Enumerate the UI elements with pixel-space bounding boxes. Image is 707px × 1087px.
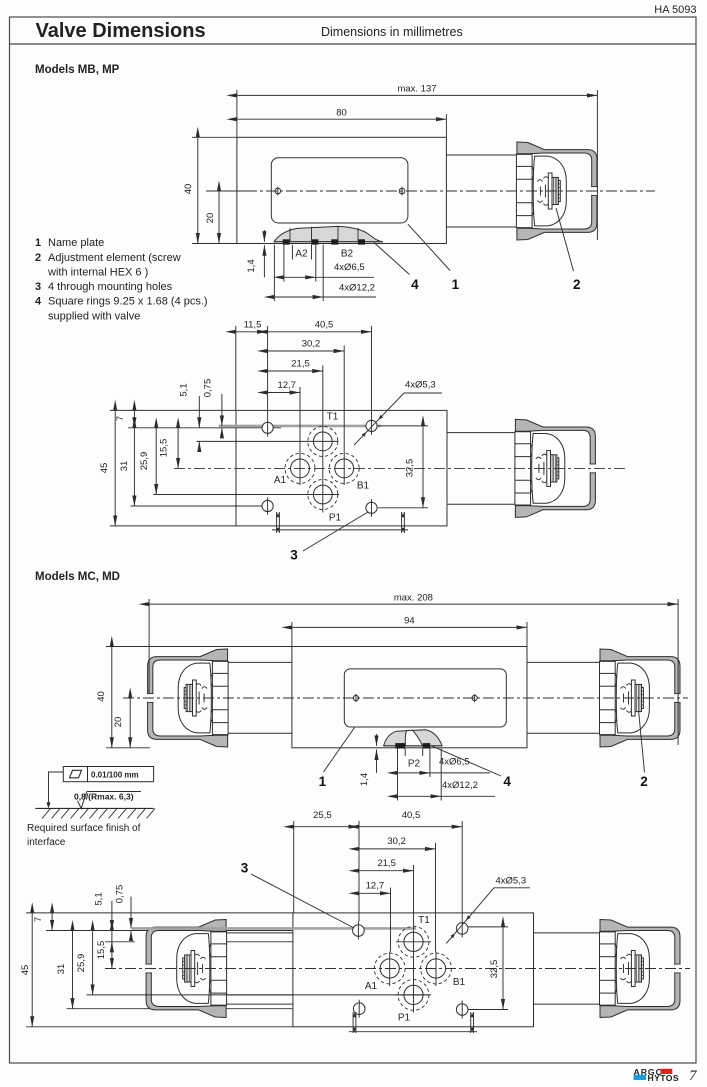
svg-text:40: 40 xyxy=(96,691,107,702)
left tube xyxy=(226,932,293,934)
flatness tolerance frame xyxy=(63,767,153,782)
svg-text:32,5: 32,5 xyxy=(405,459,416,478)
svg-text:1: 1 xyxy=(452,277,460,292)
centerline xyxy=(123,697,688,699)
svg-text:Square rings 9.25 x 1.68 (4 pc: Square rings 9.25 x 1.68 (4 pcs.) xyxy=(48,296,208,308)
svg-text:P1: P1 xyxy=(398,1013,411,1024)
svg-text:3: 3 xyxy=(35,281,41,293)
svg-text:4: 4 xyxy=(503,774,511,789)
leader 2 xyxy=(556,208,574,271)
centerline xyxy=(174,467,628,469)
svg-text:T1: T1 xyxy=(418,915,430,926)
centerline xyxy=(105,968,690,970)
plate bottom ext xyxy=(26,1026,293,1028)
leader 4 xyxy=(431,746,501,776)
svg-text:1,4: 1,4 xyxy=(246,259,257,272)
T1 tube line xyxy=(226,941,293,943)
port P1 xyxy=(313,485,332,504)
ground surface line xyxy=(35,807,153,809)
pin left xyxy=(276,512,278,533)
top dim ext lines xyxy=(235,326,237,410)
right tube xyxy=(534,932,601,934)
dim 30.2 xyxy=(359,848,436,850)
extension lines below hump xyxy=(273,245,275,301)
port B1 xyxy=(335,459,354,478)
square rings hump xyxy=(274,226,383,241)
dim 12.7 xyxy=(268,392,300,394)
dim 11.5 xyxy=(236,331,268,333)
mounting hole TR xyxy=(366,420,377,431)
name plate screw right xyxy=(472,695,477,700)
dim 40 xyxy=(106,646,292,648)
dim 32.5 xyxy=(378,425,428,427)
svg-text:15,5: 15,5 xyxy=(96,941,107,960)
dim 30.2 xyxy=(268,350,345,352)
svg-text:5,1: 5,1 xyxy=(179,383,190,396)
dim max 208 xyxy=(148,599,150,694)
pin right xyxy=(401,512,403,533)
square rings hump xyxy=(384,730,443,746)
svg-text:1: 1 xyxy=(35,237,41,249)
svg-text:Valve Dimensions: Valve Dimensions xyxy=(36,20,206,42)
svg-text:12,7: 12,7 xyxy=(366,881,385,892)
svg-text:25,9: 25,9 xyxy=(76,954,87,973)
pin right xyxy=(470,1012,472,1033)
BL hole line xyxy=(131,505,269,507)
svg-text:21,5: 21,5 xyxy=(291,359,310,370)
mounting hole BR xyxy=(366,502,377,513)
solenoid neck xyxy=(446,154,517,156)
leader 1 xyxy=(324,728,355,773)
dim 40.5 xyxy=(268,331,372,333)
svg-text:4 through mounting holes: 4 through mounting holes xyxy=(48,281,173,293)
svg-text:45: 45 xyxy=(20,965,31,976)
svg-text:with internal HEX 6 ): with internal HEX 6 ) xyxy=(47,267,148,279)
svg-text:30,2: 30,2 xyxy=(387,836,406,847)
name plate xyxy=(271,158,408,223)
svg-text:4xØ12,2: 4xØ12,2 xyxy=(442,780,478,791)
subplate line xyxy=(272,529,408,531)
svg-text:25,9: 25,9 xyxy=(139,452,150,471)
dim 94 xyxy=(291,622,293,647)
svg-text:40: 40 xyxy=(183,184,194,195)
left knob mirrored xyxy=(145,920,226,1018)
drawing 4: models MC MD port face view xyxy=(26,821,690,1033)
dim 40.5 xyxy=(359,826,462,828)
port T1 xyxy=(313,432,332,451)
dim 4x6.5 xyxy=(284,276,316,278)
svg-text:32,5: 32,5 xyxy=(489,960,500,979)
svg-text:21,5: 21,5 xyxy=(377,858,396,869)
valve body xyxy=(292,647,527,748)
name plate screw left xyxy=(275,188,281,194)
Rmax overline xyxy=(87,791,141,793)
mounting hole BL xyxy=(353,1003,365,1015)
dim 21.5 xyxy=(268,370,323,372)
right knob xyxy=(600,649,681,747)
dim 20 xyxy=(129,698,131,748)
hole line left (7 ref) xyxy=(128,427,281,429)
T1 axis stub xyxy=(105,941,135,943)
adjustment knob xyxy=(515,419,596,517)
dim 15.5 xyxy=(111,931,113,969)
svg-text:0,75: 0,75 xyxy=(115,885,126,904)
svg-text:A1: A1 xyxy=(365,981,378,992)
mounting plate body xyxy=(236,410,447,526)
BL hole line xyxy=(67,1008,355,1010)
svg-text:max. 137: max. 137 xyxy=(397,84,436,95)
dim 5.1 xyxy=(111,901,113,931)
svg-text:40,5: 40,5 xyxy=(315,320,334,331)
svg-text:interface: interface xyxy=(27,837,66,848)
svg-text:20: 20 xyxy=(205,213,216,224)
svg-text:0,8/(Rmax. 6,3): 0,8/(Rmax. 6,3) xyxy=(74,791,134,801)
dim 0.75 xyxy=(221,394,223,426)
svg-text:B1: B1 xyxy=(453,977,466,988)
top dim ext lines xyxy=(293,821,295,913)
svg-text:Required surface finish of: Required surface finish of xyxy=(27,823,141,834)
leader 3 xyxy=(251,874,354,928)
svg-text:2: 2 xyxy=(640,774,648,789)
name plate screw right xyxy=(399,188,405,194)
extension lines below hump xyxy=(397,749,399,801)
hatching xyxy=(42,808,155,818)
adjustment knob xyxy=(516,142,597,240)
svg-text:7: 7 xyxy=(115,416,126,421)
svg-text:Name plate: Name plate xyxy=(48,237,104,249)
svg-text:P1: P1 xyxy=(329,513,342,524)
port T1 xyxy=(404,932,423,951)
svg-text:4xØ12,2: 4xØ12,2 xyxy=(339,283,375,294)
flatness symbol xyxy=(70,770,82,778)
svg-text:B2: B2 xyxy=(341,249,354,260)
centerline xyxy=(206,190,655,192)
solenoid neck xyxy=(447,432,515,434)
svg-text:0,75: 0,75 xyxy=(203,379,214,398)
port P1 xyxy=(404,985,423,1004)
leader 1 xyxy=(408,224,450,270)
dim 45 xyxy=(31,913,33,1027)
svg-text:Adjustment element (screw: Adjustment element (screw xyxy=(48,252,181,264)
svg-text:7: 7 xyxy=(689,1068,698,1084)
dim 7 xyxy=(51,913,53,931)
name plate xyxy=(344,669,506,727)
svg-text:2: 2 xyxy=(573,277,581,292)
svg-text:supplied with valve: supplied with valve xyxy=(48,311,140,323)
svg-text:P2: P2 xyxy=(408,759,421,770)
leader to surface xyxy=(49,772,64,803)
svg-text:B1: B1 xyxy=(357,481,370,492)
leader 4 xyxy=(374,243,410,275)
dim 32.5 xyxy=(468,926,508,928)
dim 4x12.2 xyxy=(398,795,442,797)
svg-text:4xØ5,3: 4xØ5,3 xyxy=(496,876,527,887)
svg-text:Models MB, MP: Models MB, MP xyxy=(35,64,120,76)
svg-text:15,5: 15,5 xyxy=(159,439,170,458)
legend list xyxy=(35,237,208,323)
svg-text:1: 1 xyxy=(319,774,327,789)
dim 7 and 31 xyxy=(133,410,135,427)
roughness check symbol xyxy=(78,792,87,809)
dim 4x12.2 xyxy=(274,296,323,298)
gray pencil line xyxy=(132,927,416,930)
drawing 2: models MB MP port face view xyxy=(110,326,628,551)
port A1 xyxy=(291,459,310,478)
svg-text:HA 5093: HA 5093 xyxy=(654,4,696,16)
dim 15.5 xyxy=(177,428,179,469)
gray pencil line xyxy=(219,425,381,428)
svg-text:20: 20 xyxy=(113,717,124,728)
dim max 137 xyxy=(236,90,238,137)
dim 12.7 xyxy=(359,892,391,894)
svg-text:Dimensions in millimetres: Dimensions in millimetres xyxy=(321,25,463,39)
dim 31 xyxy=(72,931,74,1009)
svg-text:45: 45 xyxy=(99,463,110,474)
dim 25.5 xyxy=(294,826,359,828)
svg-text:40,5: 40,5 xyxy=(402,810,421,821)
svg-text:80: 80 xyxy=(336,108,347,119)
dim 25.9 xyxy=(155,428,157,495)
header separator xyxy=(10,43,697,45)
dim 4x6.5 xyxy=(398,772,430,774)
dim 80 xyxy=(445,114,447,137)
dim 1.4 xyxy=(376,734,378,746)
name plate screw left xyxy=(353,695,358,700)
dim 45 xyxy=(114,410,116,526)
mounting hole BL xyxy=(262,500,273,511)
footer logo ARGO HYTOS xyxy=(634,1067,679,1083)
svg-text:4xØ6,5: 4xØ6,5 xyxy=(334,262,365,273)
svg-text:4xØ5,3: 4xØ5,3 xyxy=(405,380,436,391)
drawing 3: models MC MD side view xyxy=(106,599,688,801)
svg-text:4: 4 xyxy=(35,296,42,308)
mounting hole TL xyxy=(353,925,365,937)
svg-text:31: 31 xyxy=(56,964,67,975)
drawing 1: models MB MP side view xyxy=(192,90,655,301)
dim 25.9 xyxy=(92,931,94,995)
svg-text:5,1: 5,1 xyxy=(94,892,105,905)
plate top ext xyxy=(110,409,236,411)
svg-text:max. 208: max. 208 xyxy=(394,592,433,603)
leader 4x5.3 xyxy=(446,888,530,944)
square ring seals xyxy=(395,743,430,748)
subplate line xyxy=(349,1031,477,1033)
svg-text:T1: T1 xyxy=(327,412,339,423)
svg-text:94: 94 xyxy=(404,616,415,627)
svg-text:HYTOS: HYTOS xyxy=(648,1073,679,1083)
svg-text:30,2: 30,2 xyxy=(302,339,321,350)
svg-text:25,5: 25,5 xyxy=(313,810,332,821)
mounting hole BR xyxy=(456,1004,468,1016)
valve body xyxy=(237,137,447,243)
P1 axis line xyxy=(153,494,339,496)
dim 21.5 xyxy=(359,870,414,872)
plate bottom ext xyxy=(110,525,236,527)
svg-text:4xØ6,5: 4xØ6,5 xyxy=(439,757,470,768)
P1 axis line xyxy=(87,994,430,996)
svg-text:A2: A2 xyxy=(295,249,308,260)
plate top ext xyxy=(26,912,293,914)
port partition lines xyxy=(289,228,291,242)
left knob mirrored xyxy=(147,649,228,747)
svg-text:1,4: 1,4 xyxy=(359,773,370,786)
svg-text:3: 3 xyxy=(290,548,298,563)
svg-text:3: 3 xyxy=(241,861,249,876)
leader 2 xyxy=(639,711,645,773)
mounting hole TR xyxy=(456,923,468,935)
mounting plate body xyxy=(293,913,534,1027)
leader 4x5.3 xyxy=(354,393,442,445)
port A1 xyxy=(380,959,399,978)
svg-text:7: 7 xyxy=(33,917,44,922)
right knob xyxy=(600,920,681,1018)
dim 5.1 xyxy=(198,396,200,428)
svg-text:4: 4 xyxy=(411,277,419,292)
leader 3 xyxy=(303,512,368,551)
dim 20 xyxy=(215,190,246,192)
square ring seals xyxy=(283,239,365,244)
svg-text:0.01/100 mm: 0.01/100 mm xyxy=(91,771,139,780)
mounting hole TL xyxy=(262,422,273,433)
T1 axis line xyxy=(197,440,339,442)
pin left xyxy=(352,1012,354,1033)
surface finish requirement detail xyxy=(35,767,155,819)
port B1 xyxy=(426,959,445,978)
svg-text:Models MC, MD: Models MC, MD xyxy=(35,571,120,583)
svg-text:31: 31 xyxy=(119,461,130,472)
dim 40 xyxy=(192,136,237,138)
svg-text:12,7: 12,7 xyxy=(277,380,296,391)
svg-text:2: 2 xyxy=(35,252,41,264)
dim 0.75 xyxy=(130,897,132,929)
svg-text:11,5: 11,5 xyxy=(244,320,262,331)
left tube xyxy=(228,661,292,663)
right tube xyxy=(527,661,600,663)
dim 1.4 xyxy=(263,230,265,242)
hole line left xyxy=(46,930,353,932)
svg-text:A1: A1 xyxy=(274,475,287,486)
